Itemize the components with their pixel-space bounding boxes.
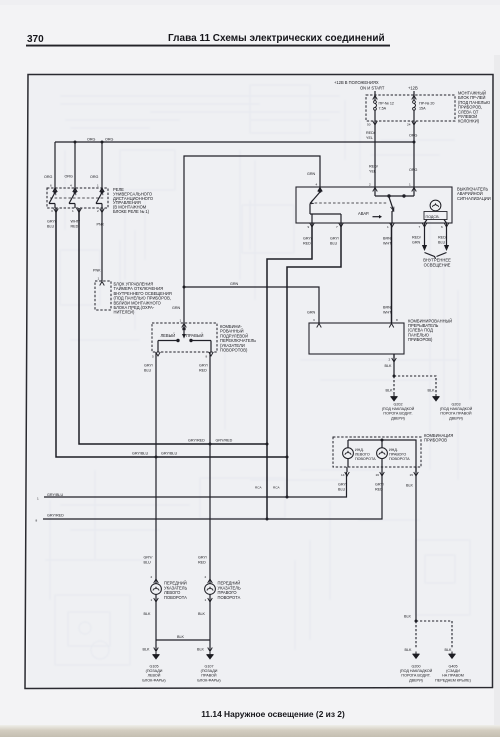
connector pins hazard bottom [310,223,315,227]
svg-text:GRY/BLU: GRY/BLU [132,452,148,456]
wire cluster left indicator leads [347,440,349,467]
header rule [26,45,390,47]
svg-text:2: 2 [97,209,99,213]
connector pins relay top [53,188,58,192]
svg-text:GRY/: GRY/ [338,483,348,487]
wire ORG bus to relay [55,141,414,143]
svg-text:GRN: GRN [172,306,181,310]
svg-text:2: 2 [151,575,153,579]
hazard switch box [296,187,452,223]
svg-text:3: 3 [313,318,315,322]
svg-text:8: 8 [206,355,208,359]
hazard AVAR label and arrow [358,211,382,219]
svg-text:ПОДСВ.: ПОДСВ. [426,215,440,219]
wire GRN branch to flasher [184,287,319,323]
ground G405 [448,652,455,659]
svg-text:4: 4 [70,184,72,188]
svg-text:1: 1 [97,184,99,188]
svg-text:2: 2 [389,358,391,362]
svg-text:11.14 Наружное освещение (2 из: 11.14 Наружное освещение (2 из 2) [201,709,345,719]
svg-text:1: 1 [409,183,411,187]
svg-text:7: 7 [336,225,338,229]
svg-text:ЛЕВЫЙ: ЛЕВЫЙ [161,333,176,338]
svg-text:2: 2 [205,575,207,579]
svg-text:BLK: BLK [404,615,412,619]
interior lighting feed arrows [425,223,447,245]
node junction switch GRY/BLU on wire2 [155,456,158,459]
svg-text:RED: RED [199,369,207,373]
svg-text:BLK: BLK [177,635,185,639]
wire ORG fuse 20 to hazard [413,110,415,187]
svg-text:BLK: BLK [385,364,393,368]
svg-text:PNK: PNK [93,269,101,273]
flasher unit box [309,323,404,354]
svg-text:GRN: GRN [307,172,316,176]
wire BLK link between front lamps [156,639,210,641]
svg-text:ORG: ORG [409,168,418,172]
diagram outer frame border [25,75,493,689]
connector pins cluster [345,472,350,476]
svg-text:1: 1 [151,598,153,602]
wire GRY/BLU from relay to hazard net [56,208,287,457]
FOOTER [201,709,345,719]
ground G105 [152,652,159,659]
svg-text:PNK: PNK [97,223,105,227]
svg-text:GRY/: GRY/ [330,237,340,241]
svg-text:GRY/: GRY/ [303,237,313,241]
svg-text:BLU: BLU [144,561,152,565]
node GRY/RED junction at wire1 [266,443,269,446]
svg-text:RED/: RED/ [366,131,376,135]
svg-text:ПР-№ 12: ПР-№ 12 [379,102,394,106]
svg-text:BLK: BLK [144,612,152,616]
wire turn switch right output GRY/RED [209,352,211,584]
wire GRY/BLU hazard output [287,223,341,497]
node GRY/BLU junction at cluster feed [286,496,289,499]
svg-text:1: 1 [37,497,39,501]
svg-text:3: 3 [51,209,53,213]
node ORG junction 3 [101,141,104,144]
svg-text:ПЕРЕДНИЙУКАЗАТЕЛЬЛЕВОГОПОВОРОТ: ПЕРЕДНИЙУКАЗАТЕЛЬЛЕВОГОПОВОРОТА [164,581,187,600]
ground G200 [412,652,419,659]
svg-text:9: 9 [308,225,310,229]
node GRY/BLU junction at wire2 [286,456,289,459]
flasher bottom pin wire [393,354,395,358]
node junction switch GRY/RED on wire1 [209,443,212,446]
svg-text:5: 5 [152,355,154,359]
wire RED/YEL fuse 12 to hazard [374,110,376,187]
svg-text:ORG: ORG [44,175,53,179]
svg-text:16: 16 [376,473,380,477]
svg-text:GRY/: GRY/ [144,556,154,560]
svg-text:+12В: +12В [408,86,418,91]
connector pins front lamps [154,579,159,583]
svg-text:ПЕРЕДНИЙУКАЗАТЕЛЬПРАВОГОПОВОРО: ПЕРЕДНИЙУКАЗАТЕЛЬПРАВОГОПОВОРОТА [218,581,241,600]
svg-text:BLU: BLU [330,242,338,246]
hazard switch left contact [310,187,341,223]
svg-text:BLU: BLU [438,241,446,245]
svg-text:RCA: RCA [273,486,280,490]
connector pins timer unit [100,282,105,286]
svg-text:1: 1 [205,598,207,602]
node flasher BLK junction [393,375,396,378]
right turn indicator lamp [377,448,388,459]
svg-text:GRY/BLU: GRY/BLU [161,452,177,456]
turn switch lever [182,323,186,339]
node ORG fuse junction [413,141,416,144]
svg-text:BLK: BLK [428,389,436,393]
fuse box dashed [366,95,455,121]
HEADER [26,33,390,47]
wire ORG relay drop 2 [74,142,76,188]
wire RED/YEL fuse 12 feed [374,91,376,100]
svg-text:RED/: RED/ [438,236,448,240]
hazard illumination lamp ПОДСВ [424,200,447,223]
svg-text:1: 1 [72,209,74,213]
turn signal switch box [152,323,217,352]
wire WHT/RED from relay to GRY/RED net [79,208,267,444]
svg-text:RED: RED [303,242,311,246]
wire GRN hazard to turn switch [184,156,320,323]
svg-text:GRN: GRN [412,241,421,245]
instrument cluster box [333,437,421,467]
turn switch right contact bar [190,339,211,352]
svg-text:WHT: WHT [383,311,392,315]
svg-text:BLK: BLK [143,648,151,652]
wire ORG relay drop 3 [101,142,103,188]
svg-text:1: 1 [180,319,182,323]
svg-text:BLK: BLK [386,389,394,393]
wire ORG relay drop 1 [54,142,56,188]
svg-text:RED: RED [71,225,79,229]
svg-text:7,5А: 7,5А [379,107,387,111]
svg-text:7: 7 [419,225,421,229]
svg-text:ПРАВЫЙ: ПРАВЫЙ [186,333,203,338]
svg-text:GRY/: GRY/ [199,364,209,368]
connector pins lamp grounds [154,648,159,652]
svg-text:GRY/RED: GRY/RED [47,514,64,518]
node cluster bus junction [381,439,384,442]
wire front left lamp ground BLK [155,595,157,652]
timer control unit box [95,281,111,310]
svg-text:BLK: BLK [198,612,206,616]
svg-text:АВАР.: АВАР. [358,211,369,216]
node GRN junction [183,286,186,289]
node cluster BLK junction [415,620,418,623]
connector pins relay bottom [54,209,59,213]
wire turn switch left output GRY/BLU [155,352,157,584]
svg-text:6: 6 [50,184,52,188]
svg-text:24: 24 [407,123,411,127]
svg-text:6: 6 [441,225,443,229]
svg-text:BLU: BLU [144,369,152,373]
wire cluster bus to BLK [348,440,416,621]
svg-text:BRN/: BRN/ [383,306,393,310]
bottom tan scan bar [0,725,500,737]
svg-text:1: 1 [98,277,100,281]
svg-text:BLK: BLK [406,484,414,488]
connector pins hazard top [318,188,323,192]
svg-text:RED/: RED/ [369,165,379,169]
wire BRN/WHT hazard to flasher [391,223,393,323]
node GRY/RED junction at cluster feed [266,518,269,521]
svg-text:YEL: YEL [369,170,376,174]
wire dashed BLK to ground G405 [416,621,452,649]
svg-text:BLU: BLU [47,225,55,229]
svg-text:RED: RED [375,488,383,492]
svg-text:GRN: GRN [230,282,239,286]
turn switch left contact bar [158,339,179,352]
wire flasher BLK output [393,354,395,376]
right page-edge shade [494,55,500,737]
svg-text:ORG: ORG [65,175,74,179]
svg-text:+12В В ПОЛОЖЕНИЯХ: +12В В ПОЛОЖЕНИЯХ [334,80,379,85]
svg-text:2: 2 [369,183,371,187]
svg-text:50: 50 [367,123,371,127]
svg-text:GRY/: GRY/ [144,364,154,368]
svg-text:370: 370 [27,34,44,45]
svg-text:GRN: GRN [307,311,316,315]
svg-text:GRY/: GRY/ [375,483,385,487]
fuse F12 [374,101,377,111]
svg-text:BLK: BLK [445,648,453,652]
svg-text:ОСВЕЩЕНИЕ: ОСВЕЩЕНИЕ [424,263,451,268]
relay contact 1 [49,188,56,208]
bracket to interior lighting note [425,253,447,259]
svg-text:RED: RED [198,561,206,565]
svg-text:15: 15 [410,473,414,477]
svg-text:WHT: WHT [383,242,392,246]
svg-text:8: 8 [396,318,398,322]
wire cluster indicator pins [347,467,416,472]
svg-text:ПР-№ 20: ПР-№ 20 [419,102,434,106]
wire dashed BLK to ground G202 [393,376,395,394]
wire GRY/BLU from left frame to cluster left indicator [44,472,347,497]
connector pins flasher [317,324,322,328]
svg-text:RCA: RCA [255,486,262,490]
svg-text:1: 1 [387,225,389,229]
wire dashed BLK to ground G200 [415,621,417,649]
connector pins turn switch [182,324,187,328]
front right turn lamp [205,584,216,595]
ground G202 [390,394,397,401]
svg-text:Глава 11 Схемы электрических с: Глава 11 Схемы электрических соединений [168,33,385,44]
svg-text:YEL: YEL [366,136,373,140]
svg-text:РЕЛЕУНИВЕРСАЛЬНОГОДИСТАНЦИОННО: РЕЛЕУНИВЕРСАЛЬНОГОДИСТАНЦИОННОГОУПРАВЛЕН… [113,187,153,214]
svg-text:GRY/BLU: GRY/BLU [47,493,63,497]
wire GRY/RED hazard output [267,223,312,519]
svg-text:15А: 15А [419,107,426,111]
svg-text:BLK: BLK [405,648,413,652]
svg-text:WHT/: WHT/ [71,220,81,224]
svg-text:ORG: ORG [90,175,99,179]
svg-text:GRY/: GRY/ [198,556,208,560]
relay contact 3 [96,188,103,208]
svg-text:ORG: ORG [87,138,96,142]
svg-text:GRY/RED: GRY/RED [188,439,205,443]
ground G203 [432,394,439,401]
relay mechanical link [50,197,104,199]
wire dashed BLK to ground G203 [394,376,436,394]
svg-text:BLK: BLK [197,648,205,652]
wire front right lamp ground BLK [209,595,211,652]
svg-text:4: 4 [316,183,318,187]
GHOSTS (reverse page show-through) [45,85,470,665]
node ORG junction 2 [74,141,77,144]
relay contact 2 [69,188,76,208]
wire PNK from relay to timer unit [101,208,103,281]
fuse F20 [413,101,416,111]
svg-text:RED/: RED/ [412,236,422,240]
hazard switch right contact [375,187,414,223]
svg-text:ORG: ORG [409,134,418,138]
wire cluster right indicator leads [381,440,383,467]
relay U1 universal remote control box [47,188,108,208]
svg-text:GRY/RED: GRY/RED [216,439,233,443]
svg-text:BRN/: BRN/ [383,237,393,241]
left turn indicator lamp [343,448,354,459]
svg-text:14: 14 [341,473,345,477]
front left turn lamp [151,584,162,595]
svg-text:ON И START: ON И START [360,86,385,91]
connector pins fuse box [373,96,378,100]
wire GRY/RED from left frame to cluster right indicator [43,472,382,519]
hazard switch mechanical link [310,202,388,204]
svg-text:GRY/: GRY/ [47,220,57,224]
wire ORG fuse 20 feed [413,91,415,100]
svg-text:BLU: BLU [338,488,346,492]
svg-text:8: 8 [36,519,38,523]
ground G107 [206,652,213,659]
svg-text:ORG: ORG [105,138,114,142]
